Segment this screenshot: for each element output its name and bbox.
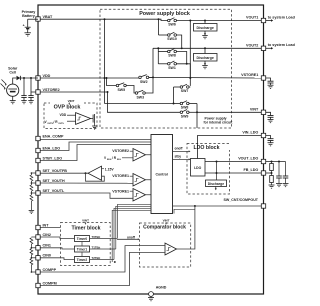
svg-text:VIN_LDO: VIN_LDO [242, 131, 258, 135]
svg-text:VSTORE2: VSTORE2 [112, 149, 129, 153]
svg-text:Timer block: Timer block [71, 226, 100, 232]
svg-text:Discharge: Discharge [197, 26, 214, 30]
svg-text:onoff: onoff [175, 147, 184, 151]
svg-text:SET_VOUTH: SET_VOUTH [43, 179, 65, 183]
svg-text:for internal circuit: for internal circuit [204, 120, 234, 124]
svg-text:1.15V: 1.15V [105, 167, 115, 171]
svg-text:Timer1: Timer1 [77, 248, 88, 252]
svg-text:Timer2: Timer2 [77, 258, 88, 262]
svg-text:SW_CNT/COMPOUT: SW_CNT/COMPOUT [223, 198, 258, 202]
svg-text:VINT: VINT [82, 218, 89, 222]
svg-text:VDD: VDD [43, 74, 51, 78]
svg-text:Timer0: Timer0 [77, 237, 88, 241]
svg-text:VSTORE1: VSTORE1 [241, 73, 258, 77]
svg-text:COMPM: COMPM [43, 281, 57, 285]
svg-text:COMPP: COMPP [43, 268, 57, 272]
svg-text:VBAT: VBAT [43, 15, 54, 19]
svg-text:FB_LDO: FB_LDO [244, 168, 259, 172]
svg-text:Discharge: Discharge [208, 182, 225, 186]
svg-text:VINT: VINT [68, 99, 75, 103]
svg-text:VOUT_LDO: VOUT_LDO [238, 157, 258, 161]
svg-text:SW2: SW2 [140, 80, 148, 84]
svg-text:STBY_LDO: STBY_LDO [43, 156, 63, 160]
svg-text:SW10: SW10 [167, 37, 177, 41]
svg-text:+: + [23, 24, 25, 28]
svg-text:AGND: AGND [156, 286, 167, 290]
svg-text:to system Load: to system Load [268, 43, 296, 47]
svg-text:SW9: SW9 [181, 115, 189, 119]
svg-text:stby: stby [175, 155, 182, 159]
svg-text:Power supply block: Power supply block [139, 11, 190, 17]
svg-text:Battery: Battery [22, 14, 36, 18]
svg-text:INT: INT [43, 223, 50, 227]
svg-text:LDO: LDO [194, 166, 202, 170]
svg-text:Control: Control [155, 173, 167, 177]
svg-text:SW5: SW5 [117, 88, 125, 92]
svg-text:VDD: VDD [60, 113, 67, 117]
svg-text:VINT: VINT [163, 218, 170, 222]
svg-text:VOUT2: VOUT2 [246, 44, 258, 48]
svg-text:VSTORE1: VSTORE1 [112, 190, 129, 194]
svg-text:SET_VOUTFB: SET_VOUTFB [43, 169, 68, 173]
svg-text:CIN2: CIN2 [43, 233, 51, 237]
svg-text:SW1: SW1 [168, 66, 176, 70]
svg-text:SW8: SW8 [168, 54, 176, 58]
svg-text:SW3: SW3 [136, 96, 144, 100]
svg-text:Comparator block: Comparator block [143, 224, 186, 230]
svg-text:OVPL: OVPL [58, 123, 65, 125]
svg-text:Cell: Cell [9, 71, 16, 75]
svg-text:onoff: onoff [127, 235, 136, 239]
svg-text:SW7: SW7 [181, 89, 189, 93]
svg-text:to system Load: to system Load [268, 15, 296, 19]
svg-text:OVP block: OVP block [54, 105, 81, 111]
svg-text:SW6: SW6 [168, 23, 176, 27]
svg-text:VSTORE2: VSTORE2 [43, 88, 60, 92]
svg-text:SET_VOUTL: SET_VOUTL [43, 189, 65, 193]
svg-text:CIN0: CIN0 [43, 254, 51, 258]
svg-text:VOUT1: VOUT1 [246, 16, 258, 20]
svg-text:Discharge: Discharge [197, 56, 214, 60]
svg-text:VSTORE1: VSTORE1 [112, 174, 129, 178]
svg-text:VINT: VINT [250, 108, 259, 112]
svg-text:CIN1: CIN1 [43, 244, 51, 248]
svg-text:ENA_LDO: ENA_LDO [43, 146, 61, 150]
svg-text:ENA_COMP: ENA_COMP [43, 134, 64, 138]
svg-text:SW8: SW8 [181, 106, 189, 110]
